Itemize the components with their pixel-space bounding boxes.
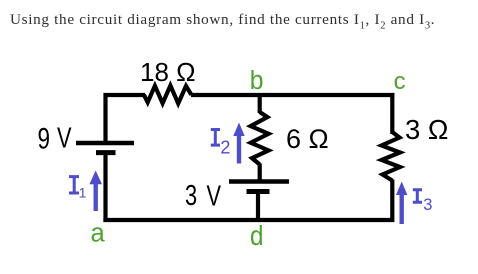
battery B1 9V short plate [96, 150, 116, 155]
svg-text:d: d [250, 221, 263, 251]
svg-text:V: V [207, 181, 222, 213]
wire: right branch from node c down to resistor R3 [390, 93, 394, 134]
current label I3 [413, 190, 422, 203]
resistor R3 3 ohm (vertical zigzag) [382, 132, 401, 181]
svg-text:18 Ω: 18 Ω [140, 57, 196, 87]
current arrow I1 [89, 171, 102, 212]
svg-text:1: 1 [79, 185, 87, 201]
resistor R2 6 ohm (vertical zigzag) [251, 112, 269, 165]
wire: left branch up + top wire to resistor R1 [106, 95, 146, 143]
battery B1 9V long plate [76, 141, 134, 145]
svg-text:6 Ω: 6 Ω [286, 124, 329, 154]
battery B2 3V long plate [229, 179, 289, 183]
svg-text:Using the circuit diagram show: Using the circuit diagram shown, find th… [10, 11, 435, 32]
wire: left branch from battery B1 minus plate down to node a [103, 153, 107, 223]
wire: top wire from R1 through node b to node c [191, 93, 394, 97]
current label I2 [211, 130, 220, 146]
current arrow I2 [233, 123, 244, 164]
svg-text:3 Ω: 3 Ω [405, 114, 449, 145]
current arrow I3 [396, 182, 407, 225]
svg-text:3: 3 [423, 196, 432, 214]
wire: right branch bottom + bottom wire to node a [103, 180, 392, 221]
wire: middle branch from node b down to resistor R2 [258, 93, 262, 113]
svg-text:9: 9 [38, 121, 51, 155]
svg-text:2: 2 [220, 137, 230, 157]
svg-text:V: V [57, 123, 72, 155]
wire: middle branch from B2 minus plate down to node d [256, 192, 260, 223]
current label I1 [69, 177, 79, 193]
resistor R1 18 ohm (horizontal zigzag) [144, 86, 191, 104]
wire: middle branch from R2 down to battery B2 [258, 164, 262, 182]
svg-text:a: a [91, 220, 106, 248]
battery B2 3V short plate [247, 189, 270, 194]
svg-text:3: 3 [185, 180, 197, 212]
svg-text:c: c [394, 68, 406, 95]
svg-text:b: b [250, 66, 264, 95]
